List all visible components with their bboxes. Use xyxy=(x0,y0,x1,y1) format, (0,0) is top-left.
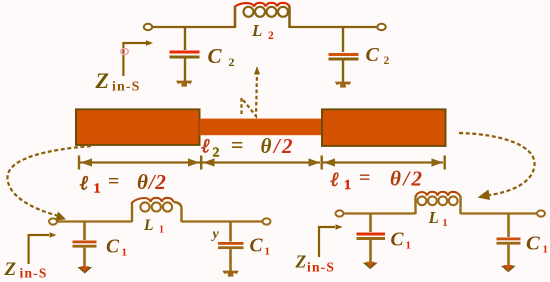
dimension tick far-left xyxy=(78,156,80,170)
wire bottom-left circuit, left span xyxy=(57,220,132,222)
inductor L1 (bl) : top arcs xyxy=(132,198,174,203)
inductor L2 : right riser xyxy=(288,6,291,28)
dashed curve from right block to bottom-right circuit xyxy=(459,133,535,196)
svg-text:2: 2 xyxy=(213,146,220,161)
capacitor C1 (bl second) : bottom lead xyxy=(229,249,232,272)
dimension line segment l1 left xyxy=(80,161,200,163)
inductor L1 (bl) : loop ring 2 xyxy=(152,202,161,211)
dashed squiggle arrow from strip up to top circuit xyxy=(242,73,258,116)
dimension line segment l2 xyxy=(202,161,320,163)
capacitor C1 (bl second) : bottom plate xyxy=(218,246,244,249)
svg-text:L: L xyxy=(143,217,153,234)
capacitor C1 (bl first) : top plate xyxy=(73,241,97,244)
capacitor C2 right : top lead wire xyxy=(342,27,344,52)
svg-text:in-S: in-S xyxy=(112,80,141,95)
capacitor C1 (br second) : bottom lead xyxy=(507,245,510,267)
inductor L1 (bl) : loop ring 1 xyxy=(140,202,149,211)
inductor L1 (br) : top arcs xyxy=(416,192,461,197)
inductor L1 (br) : loop ring 4 xyxy=(449,196,458,205)
svg-text:C: C xyxy=(208,44,223,68)
inductor L1 (br) : left riser xyxy=(414,196,416,214)
capacitor C1 (br first) : top lead xyxy=(369,214,372,233)
dimension line segment l1 right xyxy=(323,161,443,163)
svg-text:C: C xyxy=(391,230,405,251)
dim arrowhead right-pointing at junction2 xyxy=(309,158,321,166)
terminal (open circle) bottom-right circuit, right xyxy=(537,210,545,216)
inductor L2 : loop ring 4 xyxy=(278,7,288,17)
microstrip narrow strip l2 xyxy=(200,119,323,136)
capacitor C1 (bl first) : bottom plate xyxy=(73,245,97,248)
ground (flat arrow) under br first C1 xyxy=(363,263,378,270)
terminal (open circle) top-right xyxy=(377,24,385,30)
microstrip left wide block xyxy=(76,109,200,144)
svg-text:C: C xyxy=(366,44,380,66)
svg-text:2: 2 xyxy=(229,55,235,69)
dashed squiggle arrowhead (up) xyxy=(254,66,260,75)
capacitor C1 (br second) : top lead xyxy=(507,214,510,238)
svg-text:1: 1 xyxy=(543,244,549,256)
svg-text:in-S: in-S xyxy=(20,266,48,281)
capacitor C1 (br first) : bottom lead xyxy=(369,240,372,264)
capacitor C1 (bl second, y) : top lead xyxy=(229,222,232,242)
capacitor C1 (bl first) : bottom lead xyxy=(83,248,86,268)
dimension tick far-right xyxy=(444,156,446,170)
capacitor C1 (br first) : bottom plate xyxy=(357,237,386,240)
inductor L2 : red top arcs xyxy=(235,3,290,7)
svg-text:1: 1 xyxy=(159,225,164,236)
wire bottom-right circuit, left span xyxy=(344,212,416,214)
svg-text:1: 1 xyxy=(406,240,412,252)
svg-text:1: 1 xyxy=(94,182,101,197)
capacitor C2 right : bottom lead wire xyxy=(342,61,344,84)
dashed curve from left block to bottom-left circuit xyxy=(7,146,91,216)
arrowhead of left dashed curve xyxy=(56,212,67,221)
svg-text:1: 1 xyxy=(122,247,128,259)
capacitor C1 (br second) : top plate xyxy=(497,238,521,241)
inductor L1 (bl) : left riser xyxy=(131,202,133,222)
ground (bar+tab) under right C2 xyxy=(335,82,351,88)
inductor L2 : left riser xyxy=(234,6,237,28)
capacitor C2 left : bottom lead wire xyxy=(184,59,186,83)
ground (bar+tab) under left C2 xyxy=(176,81,192,87)
inductor L1 (br) : loop ring 1 xyxy=(418,196,427,205)
Z_in-S bottom-right arrowhead xyxy=(336,224,343,230)
svg-text:1: 1 xyxy=(265,246,271,258)
capacitor C1 (br first) : red top plate xyxy=(357,233,386,236)
svg-text:C: C xyxy=(526,233,540,255)
capacitor C2 left : red top plate xyxy=(170,51,200,54)
inductor L1 (bl) : right riser xyxy=(174,202,182,222)
inductor L2 : loop ring 1 xyxy=(244,7,254,17)
Z_in-S top-left corner arrow xyxy=(123,43,146,76)
capacitor C2 right : top plate xyxy=(329,53,359,56)
svg-text:1: 1 xyxy=(344,178,351,193)
svg-text:=: = xyxy=(359,167,370,189)
Z_in-S bottom-right corner arrow xyxy=(319,227,335,257)
capacitor C2 left : top lead wire xyxy=(184,27,186,50)
svg-text:=: = xyxy=(108,171,119,193)
dim arrowhead left-pointing at junction1 xyxy=(203,158,215,166)
svg-text:θ/2: θ/2 xyxy=(137,170,167,194)
svg-text:Z: Z xyxy=(95,68,109,93)
terminal (open circle) bottom-left circuit, left xyxy=(49,218,57,224)
svg-text:L: L xyxy=(428,208,439,227)
inductor L1 (br) : loop ring 2 xyxy=(428,196,437,205)
dimension tick at l1/l2 junction xyxy=(200,156,202,170)
terminal (open circle) bottom-left circuit, right xyxy=(263,218,271,224)
capacitor C2 left : olive bottom plate xyxy=(170,56,200,59)
capacitor C2 right : bottom plate xyxy=(329,58,359,61)
svg-text:in-S: in-S xyxy=(307,260,335,275)
svg-text:θ/2: θ/2 xyxy=(261,134,295,158)
terminal (open circle) bottom-right circuit, left xyxy=(336,210,344,216)
ground (bar+tab) under bl second C1 xyxy=(222,271,238,277)
svg-text:Z: Z xyxy=(295,252,307,272)
dimension tick at l2/l1 junction xyxy=(321,156,323,170)
microstrip right wide block xyxy=(322,109,446,145)
capacitor C1 (bl first) : top lead xyxy=(83,222,86,241)
Z_in-S bottom-left arrowhead xyxy=(50,232,57,238)
dim arrowhead right-pointing at far-right tick xyxy=(432,158,444,166)
svg-text:=: = xyxy=(231,132,244,157)
svg-text:L: L xyxy=(251,21,262,40)
inductor L1 (br) : right riser xyxy=(459,196,461,214)
Z_in-S bottom-left corner arrow xyxy=(29,235,49,264)
svg-text:θ/2: θ/2 xyxy=(390,167,424,191)
svg-text:y: y xyxy=(211,227,220,242)
Z_in-S top-left arrowhead xyxy=(146,40,153,46)
terminal (open circle) top-left xyxy=(144,24,152,30)
inductor L1 (br) : loop ring 3 xyxy=(438,196,447,205)
svg-text:1: 1 xyxy=(443,218,448,229)
svg-text:Z: Z xyxy=(4,259,17,280)
svg-text:ℓ: ℓ xyxy=(202,136,211,158)
wire bottom-left circuit, right span xyxy=(182,220,263,222)
ground (flat arrow) under br second C1 xyxy=(501,266,516,273)
svg-text:C: C xyxy=(250,236,264,257)
node marker (faint red circle) top-left xyxy=(121,49,129,55)
inductor L2 : loop ring 3 xyxy=(267,7,277,17)
inductor L2 : loop ring 2 xyxy=(255,7,265,17)
arrowhead of right dashed curve xyxy=(478,190,491,201)
svg-text:2: 2 xyxy=(384,55,390,67)
inductor L1 (bl) : loop ring 3 xyxy=(163,202,172,211)
svg-text:ℓ: ℓ xyxy=(331,169,340,191)
dim arrowhead left-pointing at far-left tick xyxy=(81,158,93,166)
capacitor C1 (br second) : bottom plate xyxy=(497,242,521,245)
dim arrowhead right-pointing at junction1 xyxy=(188,158,200,166)
wire top-right horizontal xyxy=(290,26,378,28)
svg-text:C: C xyxy=(106,237,120,258)
dim arrowhead left-pointing at junction2 xyxy=(324,158,336,166)
svg-text:ℓ: ℓ xyxy=(80,173,89,195)
ground (flat arrow) under bl first C1 xyxy=(77,267,92,274)
wire top-left horizontal xyxy=(152,26,235,28)
svg-text:2: 2 xyxy=(268,30,274,42)
wire bottom-right circuit, right span xyxy=(461,212,538,214)
capacitor C1 (bl second) : top plate xyxy=(218,242,244,245)
